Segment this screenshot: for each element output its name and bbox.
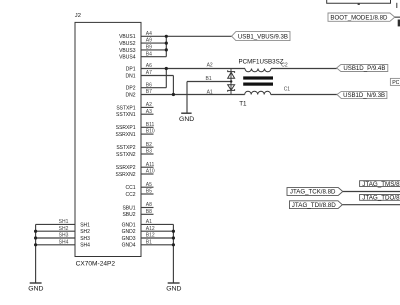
- ground GND (T1): [179, 113, 195, 123]
- svg-text:DP1: DP1: [126, 66, 136, 72]
- wire JTAG_TCK: [343, 191, 400, 193]
- svg-text:T1: T1: [239, 101, 247, 108]
- junction VBUS A9: [165, 42, 168, 45]
- svg-text:B1: B1: [146, 239, 152, 245]
- global label BOOT_MODE1/8.8D: [328, 13, 395, 21]
- wire B1 to GND: [187, 81, 231, 83]
- pin DN1 (A7): [125, 70, 173, 79]
- ESD diode bottom (cathode down): [228, 85, 235, 92]
- wire GND vertical bus (right): [172, 224, 174, 283]
- svg-text:SH1: SH1: [59, 219, 69, 225]
- svg-text:VBUS1: VBUS1: [119, 34, 136, 40]
- junction GND4: [172, 243, 175, 246]
- svg-text:B2: B2: [146, 142, 152, 148]
- svg-text:SSTXN2: SSTXN2: [116, 152, 136, 158]
- pin DN2 (B7): [125, 89, 173, 98]
- svg-text:GND: GND: [28, 286, 44, 293]
- pin VBUS1 (A4): [119, 31, 166, 40]
- partial label PC (clipped right): [390, 78, 400, 86]
- svg-text:A4: A4: [146, 31, 152, 37]
- svg-text:A7: A7: [146, 70, 152, 76]
- svg-text:B4: B4: [146, 51, 152, 57]
- svg-text:USB1D_P/9.4B: USB1D_P/9.4B: [343, 66, 385, 72]
- svg-text:GND4: GND4: [122, 243, 136, 249]
- junction VBUS A4: [165, 35, 168, 38]
- partial label JTAG_TDO (clipped): [360, 195, 400, 202]
- pin GND4 (B1): [122, 239, 174, 248]
- svg-text:B8: B8: [146, 209, 152, 215]
- svg-text:C1: C1: [284, 86, 291, 92]
- svg-text:B1: B1: [206, 76, 212, 82]
- junction VBUS B9: [165, 48, 168, 51]
- svg-text:SH1: SH1: [80, 222, 90, 228]
- svg-text:A12: A12: [146, 226, 155, 232]
- svg-text:B10: B10: [146, 129, 155, 135]
- pin GND2 (A12): [122, 226, 174, 235]
- wire DP1 row to T1: [166, 68, 245, 70]
- svg-text:B5: B5: [146, 189, 152, 195]
- svg-text:B12: B12: [146, 233, 155, 239]
- svg-text:SBU2: SBU2: [122, 212, 135, 218]
- svg-text:B11: B11: [146, 122, 155, 128]
- svg-text:SSRXP2: SSRXP2: [116, 165, 136, 171]
- pin SH2 (left shield): [36, 226, 91, 235]
- svg-text:B9: B9: [146, 45, 152, 51]
- svg-text:CX70M-24P2: CX70M-24P2: [76, 261, 116, 268]
- pin SSRXN1 (B10): [115, 129, 154, 138]
- wire DN2 row to T1: [173, 94, 244, 96]
- svg-text:B3: B3: [146, 149, 152, 155]
- junction SH2: [34, 230, 37, 233]
- junction SH4: [34, 243, 37, 246]
- svg-text:A1: A1: [207, 90, 213, 96]
- svg-text:B7: B7: [146, 89, 152, 95]
- pin SSRXN2 (A10): [115, 169, 154, 178]
- pin SBU1 (A8): [122, 202, 153, 211]
- svg-text:DN2: DN2: [125, 92, 135, 98]
- svg-text:BOOT_MODE1/8.8D: BOOT_MODE1/8.8D: [330, 15, 388, 21]
- svg-text:DN1: DN1: [125, 73, 135, 79]
- pin GND1 (A1): [122, 219, 174, 228]
- wire JTAG_TDI: [342, 204, 400, 206]
- svg-text:JTAG_TMS/8.8D: JTAG_TMS/8.8D: [362, 182, 400, 188]
- pin SSTXP1 (A2): [116, 102, 153, 111]
- wire C2 to USB1D_P label: [271, 68, 337, 70]
- svg-text:USB1D_N/9.3B: USB1D_N/9.3B: [343, 93, 385, 99]
- svg-text:SSTXP2: SSTXP2: [116, 145, 135, 151]
- svg-text:VBUS3: VBUS3: [119, 48, 136, 54]
- svg-text:GND: GND: [179, 116, 195, 123]
- svg-text:A8: A8: [146, 202, 152, 208]
- svg-text:SSRXP1: SSRXP1: [116, 125, 136, 131]
- svg-text:VBUS2: VBUS2: [119, 41, 136, 47]
- junction GND2: [172, 230, 175, 233]
- svg-text:SH3: SH3: [59, 233, 69, 239]
- pin SBU2 (B8): [122, 209, 153, 218]
- svg-text:PCMF1USB3SZ: PCMF1USB3SZ: [239, 58, 284, 65]
- ground GND (right): [166, 283, 182, 293]
- wire GND drop (T1): [186, 82, 188, 114]
- pin SH4 (left shield): [36, 239, 91, 248]
- junction DN: [172, 93, 175, 96]
- global label JTAG_TCK/8.8D: [287, 188, 343, 196]
- svg-text:PC: PC: [392, 80, 399, 86]
- svg-text:SSTXP1: SSTXP1: [116, 105, 135, 111]
- svg-text:SH4: SH4: [59, 239, 69, 245]
- wire VBUS to label: [166, 35, 232, 37]
- svg-text:JTAG_TDI/8.8D: JTAG_TDI/8.8D: [292, 203, 337, 209]
- pin SSRXP1 (B11): [116, 122, 155, 131]
- svg-text:A5: A5: [146, 182, 152, 188]
- wire C1 to USB1D_N label: [271, 94, 338, 96]
- svg-text:SSTXN1: SSTXN1: [116, 112, 136, 118]
- pin SSTXN1 (A3): [116, 109, 153, 118]
- wire DN tie vertical: [172, 76, 174, 95]
- pin SSTXP2 (B2): [116, 142, 153, 151]
- pin VBUS2 (A9): [119, 38, 166, 47]
- svg-text:J2: J2: [75, 13, 81, 19]
- ground GND (left): [28, 283, 44, 293]
- connector J2 body: [75, 22, 141, 256]
- svg-text:SBU1: SBU1: [122, 205, 135, 211]
- pin SH1 (left shield): [36, 219, 91, 228]
- svg-text:A6: A6: [146, 63, 152, 69]
- svg-text:A11: A11: [146, 162, 155, 168]
- partial label JTAG_TMS (clipped): [360, 181, 400, 188]
- svg-text:SH2: SH2: [80, 229, 90, 235]
- svg-text:A10: A10: [146, 169, 155, 175]
- wire ESD column: [230, 69, 232, 95]
- pin GND3 (B12): [122, 233, 174, 242]
- pin DP2 (B6): [126, 82, 167, 91]
- svg-text:A2: A2: [146, 102, 152, 108]
- partial label (clipped top): [327, 0, 397, 8]
- pin VBUS3 (B9): [119, 45, 166, 54]
- clipped label edge mark: [398, 20, 400, 27]
- pin CC2 (B5): [125, 189, 153, 198]
- ESD diode top (cathode up): [228, 70, 235, 78]
- svg-text:GND1: GND1: [122, 222, 136, 228]
- svg-text:A1: A1: [146, 219, 152, 225]
- svg-text:A9: A9: [146, 38, 152, 44]
- svg-text:JTAG_TCK/8.8D: JTAG_TCK/8.8D: [290, 190, 336, 196]
- svg-text:SSRXN2: SSRXN2: [115, 172, 135, 178]
- global label USB1D_N/9.3B: [337, 91, 387, 98]
- svg-text:DP2: DP2: [126, 86, 136, 92]
- svg-text:SH4: SH4: [80, 243, 90, 249]
- svg-text:SH3: SH3: [80, 236, 90, 242]
- global label JTAG_TDI/8.8D: [290, 201, 343, 209]
- choke T1 top winding: [245, 69, 271, 72]
- pin SH3 (left shield): [36, 233, 91, 242]
- wire SH vertical bus: [35, 224, 37, 283]
- svg-text:CC1: CC1: [125, 185, 135, 191]
- wire BOOT_MODE1: [395, 16, 400, 18]
- svg-text:A2: A2: [207, 63, 213, 69]
- svg-text:GND2: GND2: [122, 229, 136, 235]
- svg-text:C2: C2: [281, 63, 288, 69]
- global label USB1_VBUS/9.3B: [232, 32, 290, 41]
- svg-text:SH2: SH2: [59, 226, 69, 232]
- wire VBUS vertical bus: [165, 36, 167, 56]
- svg-text:USB1_VBUS/9.3B: USB1_VBUS/9.3B: [238, 34, 288, 40]
- svg-text:B6: B6: [146, 82, 152, 88]
- svg-text:SSRXN1: SSRXN1: [115, 132, 135, 138]
- junction DP: [165, 67, 168, 70]
- pin DP1 (A6): [126, 63, 167, 72]
- choke T1 core bar 2: [243, 83, 273, 86]
- wire DP tie vertical: [165, 69, 167, 88]
- junction GND3: [172, 236, 175, 239]
- pin CC1 (A5): [125, 182, 153, 191]
- global label USB1D_P/9.4B: [337, 65, 388, 72]
- pin SSTXN2 (B3): [116, 149, 153, 158]
- pin VBUS4 (B4): [119, 51, 166, 60]
- junction SH3: [34, 236, 37, 239]
- choke T1 bottom winding: [245, 91, 271, 94]
- svg-text:JTAG_TDO/8.8D: JTAG_TDO/8.8D: [362, 196, 400, 202]
- choke T1 core bar 1: [243, 76, 273, 79]
- svg-text:CC2: CC2: [125, 192, 135, 198]
- svg-text:GND: GND: [166, 286, 182, 293]
- junction B1/ESD: [230, 80, 232, 82]
- svg-text:GND3: GND3: [122, 236, 136, 242]
- svg-text:VBUS4: VBUS4: [119, 55, 136, 61]
- pin SSRXP2 (A11): [116, 162, 155, 171]
- svg-text:A3: A3: [146, 109, 152, 115]
